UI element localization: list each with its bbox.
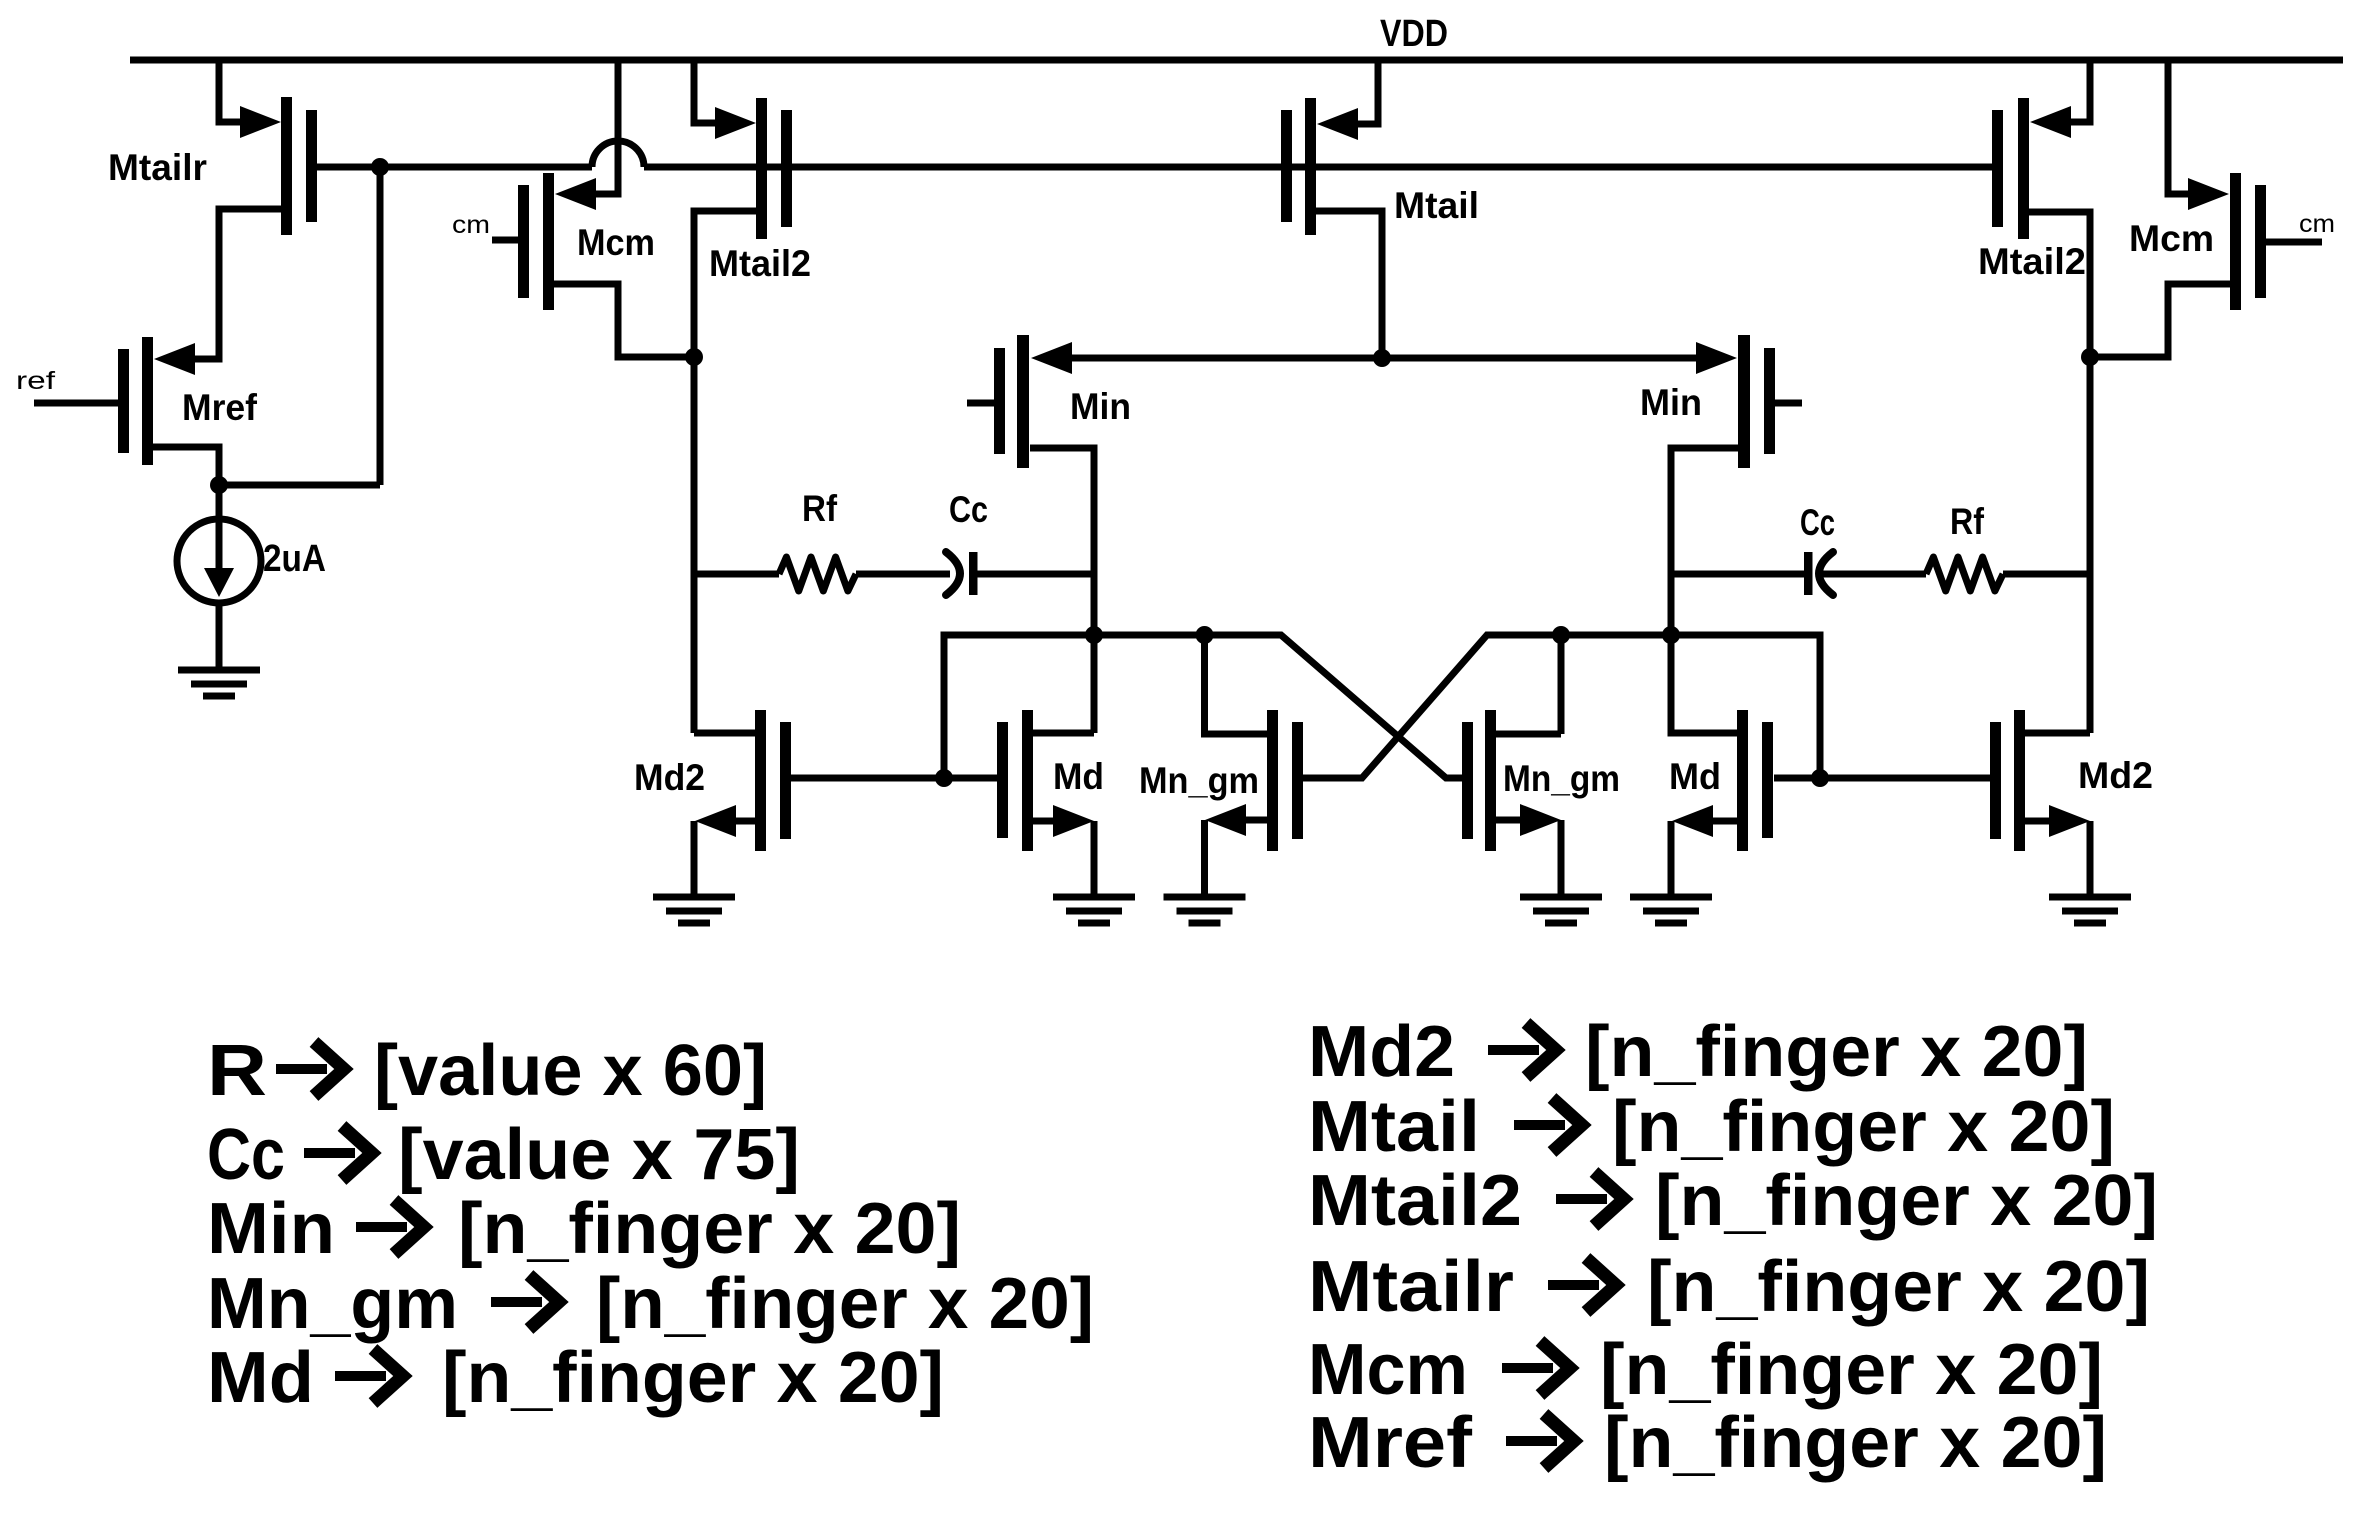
- svg-text:Cc: Cc: [1800, 502, 1835, 543]
- transistor Mcm right source arrow: [2188, 178, 2229, 210]
- node junction right bus 2: [1662, 626, 1680, 644]
- wire gate input cm right: [2266, 239, 2322, 246]
- svg-text:[n_finger x 20]: [n_finger x 20]: [1655, 1161, 2158, 1241]
- transistor Mcm right: [2230, 173, 2241, 310]
- wire Cc to Min drain: [977, 571, 1094, 578]
- svg-text:VDD: VDD: [1380, 13, 1448, 55]
- current source I1 2uA: [177, 519, 261, 603]
- svg-text:Mcm: Mcm: [577, 222, 655, 263]
- wire Rf right to node C: [2003, 571, 2090, 578]
- svg-text:Mtailr: Mtailr: [108, 147, 207, 188]
- wire Md Md2 gate net right: [1774, 775, 1990, 782]
- node junction right bus 1: [1552, 626, 1570, 644]
- wire tail rail: [1070, 355, 1698, 362]
- wire Rf to Cc: [856, 571, 950, 578]
- transistor Mcm left: [543, 173, 554, 310]
- svg-text:Md: Md: [1669, 756, 1721, 797]
- wire VDD to Mtail source: [1358, 60, 1378, 124]
- transistor Mtail2 right: [2018, 98, 2029, 239]
- wire Md left source: [1033, 818, 1055, 825]
- transistor Min right source arrow: [1696, 342, 1737, 374]
- svg-text:[n_finger x 20]: [n_finger x 20]: [1647, 1247, 2150, 1327]
- node junction gate net right: [1811, 769, 1829, 787]
- node junction gate net left: [935, 769, 953, 787]
- svg-text:Mn_gm: Mn_gm: [1503, 758, 1620, 799]
- wire Md2 right source: [2025, 818, 2050, 825]
- node junction left bus 2: [1196, 626, 1214, 644]
- capacitor Cc right: [1804, 552, 1813, 595]
- wire Md right source: [1711, 818, 1737, 825]
- svg-text:[n_finger x 20]: [n_finger x 20]: [596, 1264, 1094, 1344]
- capacitor Cc left: [946, 552, 960, 595]
- transistor Mtailr: [281, 97, 292, 235]
- transistor Md2 left: [755, 710, 766, 851]
- transistor Mcm left source arrow: [555, 178, 596, 210]
- svg-text:Mtail2: Mtail2: [709, 243, 811, 284]
- ground Mn_gm left: [1164, 894, 1246, 901]
- svg-text:Cc: Cc: [949, 489, 988, 530]
- transistor Min left source arrow: [1031, 342, 1072, 374]
- svg-text:cm: cm: [2299, 210, 2335, 238]
- transistor Md left source arrow: [1053, 805, 1094, 837]
- ground Md2 left: [653, 894, 735, 901]
- wire Mn_gm right source to ground: [1558, 820, 1565, 897]
- wire VDD to Mtailr source: [219, 60, 243, 122]
- wire Md2 left drain: [694, 730, 755, 737]
- wire Min right drain: [1671, 448, 1738, 635]
- node junction left bus 1: [1085, 626, 1103, 644]
- transistor Md right source arrow: [1672, 805, 1713, 837]
- transistor Md2 right: [2014, 710, 2025, 851]
- wire Md right source to ground: [1668, 821, 1675, 897]
- svg-text:2uA: 2uA: [263, 538, 326, 580]
- node Mtailr gate junction: [371, 158, 389, 176]
- transistor Mtailr source arrow: [240, 106, 281, 138]
- ground below current source: [178, 667, 260, 674]
- ground Md right: [1630, 894, 1712, 901]
- wire Min right gate stub: [1775, 400, 1802, 407]
- svg-text:Mtail2: Mtail2: [1308, 1161, 1522, 1241]
- resistor Rf left: [779, 557, 856, 591]
- transistor Mref source arrow: [154, 343, 195, 375]
- wire current source to ground: [216, 603, 223, 670]
- transistor Mn_gm right: [1485, 710, 1496, 851]
- transistor Mn_gm right source arrow: [1520, 804, 1561, 836]
- svg-text:R: R: [207, 1031, 267, 1111]
- svg-text:ref: ref: [16, 367, 55, 395]
- wire Md2 left source to ground: [691, 821, 698, 897]
- wire Mn_gm left source to ground: [1201, 820, 1208, 897]
- wire Cc right to Rf right: [1820, 571, 1926, 578]
- transistor Md left: [1022, 710, 1033, 851]
- node B junction: [685, 348, 703, 366]
- wire Mtailr gate: [317, 164, 592, 171]
- wire Md2 left source: [736, 818, 755, 825]
- transistor Mtail2 left: [756, 98, 767, 239]
- wire gate bias line: [644, 164, 1992, 171]
- wire Md left source to ground: [1091, 821, 1098, 897]
- svg-text:Md: Md: [207, 1338, 314, 1418]
- wire VDD to Mcm source: [596, 60, 618, 194]
- transistor Mtail: [1305, 98, 1316, 235]
- wire Mn_gm left drain: [1205, 635, 1268, 734]
- wire Md2 right drain: [2025, 730, 2090, 737]
- wire left output bus: [944, 635, 1462, 778]
- svg-text:Md2: Md2: [2078, 755, 2153, 796]
- svg-text:Md2: Md2: [1308, 1012, 1455, 1092]
- svg-text:Rf: Rf: [802, 488, 838, 529]
- wire Mtail2 right drain to Md2 right drain: [2029, 212, 2090, 733]
- wire Mn_gm right drain: [1496, 731, 1561, 738]
- wire Mtail2 drain to Md2 drain: [694, 211, 756, 733]
- svg-text:Mref: Mref: [1308, 1403, 1473, 1483]
- ground Md2 right: [2049, 894, 2131, 901]
- svg-text:Mtail2: Mtail2: [1978, 241, 2086, 282]
- svg-text:Mcm: Mcm: [2129, 218, 2214, 259]
- resistor Rf right: [1926, 557, 2003, 591]
- transistor Mn_gm left: [1267, 710, 1278, 851]
- wire Mref drain to node A: [153, 447, 219, 485]
- svg-text:Mn_gm: Mn_gm: [1139, 760, 1259, 801]
- svg-text:Mcm: Mcm: [1308, 1330, 1468, 1410]
- wire Mcm drain to node B: [554, 284, 694, 357]
- transistor Mtail2 right source arrow: [2030, 106, 2071, 138]
- wire Min left gate stub: [967, 400, 994, 407]
- wire Md left drain: [1033, 730, 1094, 737]
- wire hop over Mcm source: [592, 141, 644, 167]
- svg-text:cm: cm: [452, 211, 490, 239]
- svg-text:Mtail: Mtail: [1394, 185, 1479, 226]
- wire Mtailr drain to Mref source: [195, 209, 281, 359]
- svg-text:[value x 60]: [value x 60]: [374, 1031, 767, 1111]
- node A junction: [210, 476, 228, 494]
- wire Min right drain to Cc right: [1671, 571, 1804, 578]
- wire Mn_gm left source: [1245, 817, 1267, 824]
- transistor Min right: [1738, 335, 1750, 468]
- svg-text:Min: Min: [207, 1189, 335, 1269]
- ground Md left: [1053, 894, 1135, 901]
- transistor Mtail2 left source arrow: [715, 107, 756, 139]
- wire gate input ref: [34, 400, 118, 407]
- svg-text:[n_finger x 20]: [n_finger x 20]: [1585, 1012, 2088, 1092]
- svg-text:Rf: Rf: [1950, 501, 1985, 542]
- transistor Mtail source arrow: [1317, 108, 1358, 140]
- svg-text:Min: Min: [1640, 382, 1702, 423]
- svg-text:[n_finger x 20]: [n_finger x 20]: [442, 1338, 944, 1418]
- wire Mtail drain to tail node: [1316, 211, 1382, 358]
- svg-text:Cc: Cc: [207, 1115, 285, 1195]
- power rail VDD: [130, 57, 2343, 64]
- svg-text:Min: Min: [1070, 386, 1131, 427]
- node C junction: [2081, 348, 2099, 366]
- wire node A to Mtailr gate net: [219, 482, 380, 489]
- transistor Mn_gm left source arrow: [1205, 804, 1246, 836]
- transistor Md right: [1737, 710, 1748, 851]
- svg-text:[n_finger x 20]: [n_finger x 20]: [1600, 1330, 2103, 1410]
- wire Min left drain: [1030, 448, 1094, 635]
- wire Md2 right source to ground: [2087, 821, 2094, 897]
- node tail junction: [1373, 349, 1391, 367]
- wire node B to Rf: [694, 571, 779, 578]
- svg-text:[value x 75]: [value x 75]: [398, 1115, 800, 1195]
- ground Mn_gm right: [1520, 894, 1602, 901]
- wire Md right drain: [1671, 635, 1737, 733]
- wire VDD to Mtail2 right source: [2070, 60, 2090, 122]
- svg-text:[n_finger x 20]: [n_finger x 20]: [458, 1189, 961, 1269]
- wire right output bus: [1303, 635, 1820, 778]
- svg-text:Mtailr: Mtailr: [1308, 1247, 1514, 1327]
- svg-text:[n_finger x 20]: [n_finger x 20]: [1612, 1087, 2115, 1167]
- wire VDD to Mtail2 source: [694, 60, 717, 123]
- wire VDD to Mcm right source: [2168, 60, 2190, 194]
- transistor Mref: [142, 337, 153, 465]
- wire gate input cm left: [492, 237, 518, 244]
- wire Mn_gm right source: [1496, 817, 1520, 824]
- svg-text:[n_finger x 20]: [n_finger x 20]: [1604, 1403, 2107, 1483]
- svg-text:Mn_gm: Mn_gm: [207, 1264, 458, 1344]
- svg-text:Mref: Mref: [182, 387, 258, 428]
- wire Md2 Md gate net left: [791, 775, 997, 782]
- wire node A to current source: [216, 485, 223, 520]
- svg-text:Mtail: Mtail: [1308, 1087, 1480, 1167]
- svg-text:Md2: Md2: [634, 757, 705, 798]
- transistor Md2 right source arrow: [2049, 805, 2090, 837]
- transistor Md2 left source arrow: [695, 805, 736, 837]
- transistor Min left: [1017, 335, 1029, 468]
- svg-text:Md: Md: [1053, 756, 1104, 797]
- wire Mcm right drain to node C: [2090, 284, 2230, 357]
